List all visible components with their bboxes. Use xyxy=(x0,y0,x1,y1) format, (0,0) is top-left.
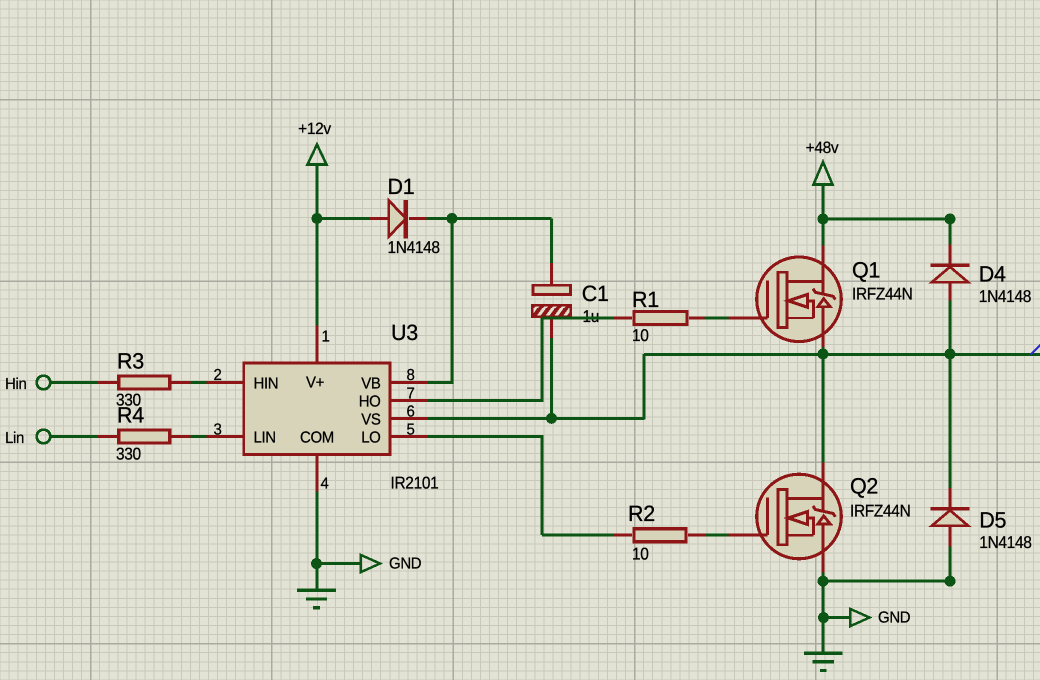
diode D1 xyxy=(370,217,389,220)
gnd flag GND 2 xyxy=(824,616,851,619)
svg-text:Lin: Lin xyxy=(5,429,24,447)
svg-text:R2: R2 xyxy=(628,501,655,526)
node junction VB/C1 xyxy=(447,213,458,224)
resistor R4 xyxy=(97,435,118,438)
svg-text:LO: LO xyxy=(361,429,380,447)
node D5 bottom junction xyxy=(945,576,956,587)
svg-text:D1: D1 xyxy=(388,174,415,199)
ground earth symbol 2 xyxy=(804,652,843,655)
gnd flag GND xyxy=(317,562,361,565)
svg-text:1N4148: 1N4148 xyxy=(979,288,1031,307)
node gnd junction 2 xyxy=(818,612,829,623)
wire Q2 source row xyxy=(823,580,950,583)
node Lin terminal xyxy=(37,430,51,444)
wire R3 to pin 2 xyxy=(191,381,207,384)
wire C1 bottom to VS node xyxy=(550,338,553,418)
node +48 left junction xyxy=(818,214,829,225)
wire switch node to D5 xyxy=(949,354,952,489)
wire +48 rail to D4 xyxy=(823,218,950,221)
svg-text:+48v: +48v xyxy=(806,139,839,157)
svg-text:HO: HO xyxy=(359,393,381,411)
svg-text:R4: R4 xyxy=(117,403,144,428)
svg-text:Q2: Q2 xyxy=(850,474,878,499)
svg-text:VS: VS xyxy=(361,411,381,429)
wire junction to D1 anode xyxy=(317,217,370,220)
pin 3 xyxy=(206,435,244,438)
wire Q2 source xyxy=(822,559,825,573)
wire R4 to pin 3 xyxy=(191,435,207,438)
svg-text:HIN: HIN xyxy=(254,375,279,393)
svg-text:V+: V+ xyxy=(306,374,325,392)
wire R2 to Q2 gate xyxy=(706,534,729,537)
wire +12v column xyxy=(316,164,319,327)
svg-text:330: 330 xyxy=(116,445,142,464)
wire Q1 source to switch node xyxy=(822,342,825,348)
pin 4 xyxy=(316,455,319,493)
pin 6 xyxy=(390,417,428,420)
svg-text:VB: VB xyxy=(361,375,381,393)
wire off-page (blue) xyxy=(1031,344,1040,355)
wire +48 to Q1 drain xyxy=(822,219,825,246)
wire LO net xyxy=(427,435,542,438)
capacitor C1 xyxy=(550,263,553,286)
wire pin4 to ground xyxy=(316,492,319,591)
svg-text:D5: D5 xyxy=(979,508,1006,533)
node Hin terminal xyxy=(37,376,51,390)
svg-text:COM: COM xyxy=(300,429,334,447)
node Q1 source junction xyxy=(818,349,829,360)
resistor R1 xyxy=(614,317,633,320)
node Q2 source junction xyxy=(818,576,829,587)
wire D1 cathode to node xyxy=(427,217,453,220)
svg-text:GND: GND xyxy=(878,609,911,627)
power symbol +48v xyxy=(814,162,833,185)
diode D4 xyxy=(949,244,952,265)
wire R1 to Q1 gate xyxy=(705,317,730,320)
svg-text:5: 5 xyxy=(407,421,415,439)
svg-text:7: 7 xyxy=(407,385,415,403)
wire +48v column xyxy=(822,184,825,220)
pin 7 xyxy=(390,399,428,402)
wire switch node to Q2 drain xyxy=(822,354,825,463)
svg-text:10: 10 xyxy=(632,327,649,346)
svg-text:1N4148: 1N4148 xyxy=(979,534,1031,553)
svg-text:8: 8 xyxy=(407,366,415,384)
ground earth symbol xyxy=(297,589,336,592)
svg-text:IR2101: IR2101 xyxy=(391,474,439,493)
svg-text:LIN: LIN xyxy=(254,429,276,447)
wire node to C1 top xyxy=(452,217,552,220)
pin 1 xyxy=(316,326,319,364)
wire HO net xyxy=(427,399,542,402)
transistor Q2 IRFZ44N xyxy=(757,474,842,559)
svg-text:10: 10 xyxy=(632,545,649,564)
svg-text:Q1: Q1 xyxy=(852,258,880,283)
wire VB net xyxy=(427,381,452,384)
wire D5 to Q2 source row xyxy=(949,547,952,582)
svg-text:3: 3 xyxy=(214,421,222,439)
svg-text:IRFZ44N: IRFZ44N xyxy=(850,502,910,521)
svg-text:Hin: Hin xyxy=(5,375,26,393)
resistor R2 xyxy=(614,534,633,537)
transistor Q1 IRFZ44N xyxy=(757,257,842,342)
svg-text:R1: R1 xyxy=(632,288,659,313)
wire VS net xyxy=(427,417,644,420)
op-amp U3 IR2101 body xyxy=(244,363,390,455)
pin 5 xyxy=(390,435,428,438)
svg-text:+12v: +12v xyxy=(298,120,331,138)
svg-text:R3: R3 xyxy=(117,349,144,374)
wire D4 to switch node xyxy=(949,301,952,355)
resistor R3 xyxy=(97,381,118,384)
power symbol +12v xyxy=(308,145,327,165)
svg-text:IRFZ44N: IRFZ44N xyxy=(852,285,912,304)
node D4 bottom junction xyxy=(945,349,956,360)
svg-text:GND: GND xyxy=(389,555,422,573)
node +48 right junction xyxy=(945,214,956,225)
wire switch node xyxy=(644,353,1040,356)
wire Q2 source to ground xyxy=(822,581,825,653)
pin 8 xyxy=(390,381,428,384)
svg-text:1N4148: 1N4148 xyxy=(388,239,440,258)
svg-text:4: 4 xyxy=(321,475,329,493)
wire Hin to R3 xyxy=(50,381,98,384)
svg-text:1: 1 xyxy=(322,328,330,346)
svg-text:2: 2 xyxy=(214,366,222,384)
pin 2 xyxy=(206,381,244,384)
svg-text:6: 6 xyxy=(407,403,415,421)
wire +48 node to D4 xyxy=(949,219,952,245)
node VS/C1 junction xyxy=(546,413,557,424)
svg-text:C1: C1 xyxy=(582,281,609,306)
svg-text:U3: U3 xyxy=(391,320,418,345)
svg-text:D4: D4 xyxy=(979,262,1006,287)
diode D5 xyxy=(949,488,952,508)
node gnd junction xyxy=(311,558,322,569)
wire Lin to R4 xyxy=(50,435,98,438)
node junction D1/+12v xyxy=(312,213,323,224)
